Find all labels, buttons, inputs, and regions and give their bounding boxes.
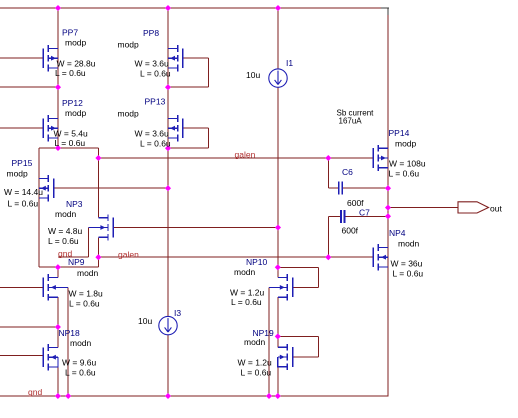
svg-text:L = 0.6u: L = 0.6u [55,68,86,78]
svg-text:W = 3.6u: W = 3.6u [135,59,170,69]
svg-text:modn: modn [77,268,99,278]
svg-text:W = 4.8u: W = 4.8u [48,226,83,236]
svg-text:modp: modp [118,109,140,119]
svg-text:PP14: PP14 [389,128,410,138]
svg-text:L = 0.6u: L = 0.6u [389,168,420,178]
svg-text:modn: modn [244,337,266,347]
svg-text:L = 0.6u: L = 0.6u [8,198,39,208]
svg-text:W = 1.8u: W = 1.8u [69,288,104,298]
svg-text:NP18: NP18 [59,328,81,338]
svg-text:L = 0.6u: L = 0.6u [48,236,79,246]
svg-text:I1: I1 [286,58,293,68]
svg-text:I3: I3 [174,308,181,318]
svg-text:W = 36u: W = 36u [391,258,423,268]
svg-text:L = 0.6u: L = 0.6u [393,268,424,278]
svg-text:NP4: NP4 [389,228,406,238]
svg-text:PP13: PP13 [145,97,166,107]
svg-text:modn: modn [398,239,420,249]
svg-text:galen: galen [118,249,139,259]
svg-text:W = 3.6u: W = 3.6u [135,129,170,139]
svg-text:gnd: gnd [58,249,72,259]
svg-text:600f: 600f [342,225,359,235]
svg-text:modn: modn [234,267,256,277]
svg-text:L = 0.6u: L = 0.6u [140,139,171,149]
svg-text:NP10: NP10 [246,257,268,267]
svg-text:W = 9.6u: W = 9.6u [62,357,97,367]
svg-text:PP8: PP8 [143,28,159,38]
svg-text:C7: C7 [359,208,370,218]
svg-text:W = 28.8u: W = 28.8u [57,59,96,69]
svg-text:W = 108u: W = 108u [389,158,426,168]
svg-text:600f: 600f [347,198,364,208]
svg-text:L = 0.6u: L = 0.6u [140,69,171,79]
svg-text:modn: modn [70,338,92,348]
svg-text:modp: modp [395,139,417,149]
svg-text:PP7: PP7 [62,28,78,38]
svg-text:galen: galen [235,150,256,160]
svg-text:gnd: gnd [28,387,42,397]
svg-text:modn: modn [55,209,77,219]
svg-text:W = 5.4u: W = 5.4u [54,129,89,139]
svg-text:L = 0.6u: L = 0.6u [65,367,96,377]
svg-text:modp: modp [118,40,140,50]
svg-text:L = 0.6u: L = 0.6u [55,138,86,148]
svg-text:modp: modp [65,38,87,48]
svg-text:W = 14.4u: W = 14.4u [4,187,43,197]
svg-text:modp: modp [7,169,29,179]
svg-text:10u: 10u [138,316,152,326]
svg-text:167uA: 167uA [339,116,363,125]
svg-text:PP15: PP15 [12,158,33,168]
svg-text:10u: 10u [246,70,260,80]
svg-text:L = 0.6u: L = 0.6u [69,298,100,308]
svg-text:L = 0.6u: L = 0.6u [241,367,272,377]
svg-text:L = 0.6u: L = 0.6u [231,297,262,307]
svg-text:W = 1.2u: W = 1.2u [230,287,265,297]
svg-text:NP3: NP3 [66,199,83,209]
svg-text:C6: C6 [342,167,353,177]
svg-text:out: out [490,204,502,214]
svg-text:W = 1.2u: W = 1.2u [238,357,273,367]
svg-text:modp: modp [65,108,87,118]
svg-text:PP12: PP12 [62,98,83,108]
